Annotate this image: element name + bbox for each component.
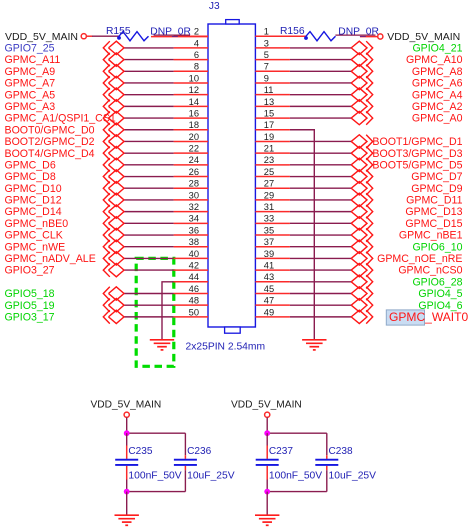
svg-text:2: 2: [194, 27, 199, 37]
svg-text:GPIO3_17: GPIO3_17: [5, 311, 55, 323]
svg-text:36: 36: [189, 225, 199, 235]
svg-text:GPMC_D12: GPMC_D12: [5, 195, 62, 207]
svg-text:R155: R155: [106, 26, 131, 37]
svg-text:7: 7: [264, 62, 269, 72]
svg-text:BOOT4/GPMC_D4: BOOT4/GPMC_D4: [5, 148, 95, 160]
svg-text:GPMC_A4: GPMC_A4: [412, 89, 463, 101]
svg-text:GPMC_A10: GPMC_A10: [406, 54, 463, 66]
svg-text:GPMC_A9: GPMC_A9: [5, 66, 56, 78]
svg-text:BOOT2/GPMC_D2: BOOT2/GPMC_D2: [5, 136, 95, 148]
svg-text:14: 14: [189, 97, 199, 107]
svg-text:37: 37: [264, 237, 274, 247]
svg-text:C238: C238: [329, 446, 354, 457]
svg-text:GPMC_D10: GPMC_D10: [5, 183, 62, 195]
svg-text:GPMC_D6: GPMC_D6: [5, 159, 56, 171]
svg-text:GPMC_nBE0: GPMC_nBE0: [5, 218, 69, 230]
svg-text:50: 50: [189, 307, 199, 317]
svg-text:DNP_0R: DNP_0R: [150, 27, 191, 38]
svg-text:DNP_0R: DNP_0R: [338, 27, 379, 38]
svg-text:GPMC_A7: GPMC_A7: [5, 78, 56, 90]
svg-text:27: 27: [264, 179, 274, 189]
svg-text:46: 46: [189, 284, 199, 294]
svg-text:24: 24: [189, 155, 199, 165]
svg-text:GPIO4_21: GPIO4_21: [412, 42, 462, 54]
svg-text:GPMC_A6: GPMC_A6: [412, 78, 463, 90]
svg-text:VDD_5V_MAIN: VDD_5V_MAIN: [231, 399, 302, 410]
svg-text:R156: R156: [280, 26, 305, 37]
svg-text:C237: C237: [269, 446, 294, 457]
svg-text:43: 43: [264, 272, 274, 282]
svg-text:GPMC_D7: GPMC_D7: [411, 171, 462, 183]
svg-text:VDD_5V_MAIN: VDD_5V_MAIN: [387, 31, 460, 43]
svg-text:17: 17: [264, 120, 274, 130]
svg-text:GPMC_D9: GPMC_D9: [411, 183, 462, 195]
svg-text:VDD_5V_MAIN: VDD_5V_MAIN: [91, 399, 162, 410]
svg-text:BOOT5/GPMC_D5: BOOT5/GPMC_D5: [372, 159, 462, 171]
svg-text:4: 4: [194, 38, 199, 48]
svg-text:GPMC_D13: GPMC_D13: [405, 206, 462, 218]
svg-text:3: 3: [264, 38, 269, 48]
svg-text:GPMC_A5: GPMC_A5: [5, 89, 56, 101]
svg-text:GPIO4_5: GPIO4_5: [418, 288, 462, 300]
svg-text:GPMC_CLK: GPMC_CLK: [5, 230, 63, 242]
svg-text:10uF_25V: 10uF_25V: [187, 470, 235, 481]
svg-text:VDD_5V_MAIN: VDD_5V_MAIN: [5, 31, 78, 43]
svg-text:2x25PIN 2.54mm: 2x25PIN 2.54mm: [186, 342, 266, 353]
svg-text:12: 12: [189, 85, 199, 95]
svg-text:GPMC_D8: GPMC_D8: [5, 171, 56, 183]
svg-text:41: 41: [264, 261, 274, 271]
svg-text:22: 22: [189, 144, 199, 154]
svg-text:GPIO5_19: GPIO5_19: [5, 300, 55, 312]
svg-text:34: 34: [189, 214, 199, 224]
svg-text:GPMC_A8: GPMC_A8: [412, 66, 463, 78]
svg-text:11: 11: [264, 85, 274, 95]
svg-text:8: 8: [194, 62, 199, 72]
svg-text:32: 32: [189, 202, 199, 212]
svg-text:18: 18: [189, 120, 199, 130]
svg-text:38: 38: [189, 237, 199, 247]
svg-text:13: 13: [264, 97, 274, 107]
svg-text:10: 10: [189, 73, 199, 83]
svg-text:26: 26: [189, 167, 199, 177]
svg-text:44: 44: [189, 272, 199, 282]
svg-text:16: 16: [189, 108, 199, 118]
svg-text:45: 45: [264, 284, 274, 294]
svg-text:20: 20: [189, 132, 199, 142]
svg-text:GPIO7_25: GPIO7_25: [5, 42, 55, 54]
svg-text:28: 28: [189, 179, 199, 189]
svg-text:GPMC_nWE: GPMC_nWE: [5, 241, 66, 253]
svg-text:GPIO3_27: GPIO3_27: [5, 265, 55, 277]
svg-text:29: 29: [264, 190, 274, 200]
svg-text:GPIO6_10: GPIO6_10: [412, 241, 462, 253]
svg-text:30: 30: [189, 190, 199, 200]
svg-text:GPMC_nADV_ALE: GPMC_nADV_ALE: [5, 253, 96, 265]
svg-text:GPMC_A0: GPMC_A0: [412, 113, 463, 125]
svg-text:C235: C235: [128, 446, 153, 457]
svg-text:21: 21: [264, 144, 274, 154]
svg-text:6: 6: [194, 50, 199, 60]
svg-text:1: 1: [264, 27, 269, 37]
svg-text:BOOT1/GPMC_D1: BOOT1/GPMC_D1: [372, 136, 462, 148]
svg-text:GPMC_A2: GPMC_A2: [412, 101, 463, 113]
svg-text:5: 5: [264, 50, 269, 60]
svg-text:GPMC_A3: GPMC_A3: [5, 101, 56, 113]
svg-text:BOOT0/GPMC_D0: BOOT0/GPMC_D0: [5, 124, 95, 136]
svg-text:GPMC_WAIT0: GPMC_WAIT0: [389, 310, 469, 324]
svg-text:100nF_50V: 100nF_50V: [269, 470, 322, 481]
svg-text:42: 42: [189, 261, 199, 271]
svg-text:10uF_25V: 10uF_25V: [329, 470, 377, 481]
svg-text:31: 31: [264, 202, 274, 212]
svg-text:15: 15: [264, 108, 274, 118]
svg-text:25: 25: [264, 167, 274, 177]
svg-text:19: 19: [264, 132, 274, 142]
svg-text:48: 48: [189, 296, 199, 306]
svg-text:J3: J3: [209, 1, 220, 12]
svg-text:GPMC_nOE_nRE: GPMC_nOE_nRE: [377, 253, 462, 265]
svg-text:GPMC_A1/QSPI1_CS1: GPMC_A1/QSPI1_CS1: [5, 113, 116, 125]
svg-text:9: 9: [264, 73, 269, 83]
svg-text:GPMC_A11: GPMC_A11: [5, 54, 61, 66]
svg-text:GPMC_nCS0: GPMC_nCS0: [398, 265, 462, 277]
svg-text:BOOT3/GPMC_D3: BOOT3/GPMC_D3: [372, 148, 462, 160]
svg-text:47: 47: [264, 296, 274, 306]
svg-text:40: 40: [189, 249, 199, 259]
svg-text:100nF_50V: 100nF_50V: [128, 470, 181, 481]
svg-text:49: 49: [264, 307, 274, 317]
svg-text:23: 23: [264, 155, 274, 165]
svg-text:GPMC_D14: GPMC_D14: [5, 206, 62, 218]
svg-text:39: 39: [264, 249, 274, 259]
svg-text:GPMC_D11: GPMC_D11: [406, 195, 462, 207]
svg-text:C236: C236: [187, 446, 212, 457]
svg-text:GPIO5_18: GPIO5_18: [5, 288, 55, 300]
svg-text:33: 33: [264, 214, 274, 224]
svg-text:GPIO6_28: GPIO6_28: [412, 276, 462, 288]
svg-text:35: 35: [264, 225, 274, 235]
svg-text:GPMC_D15: GPMC_D15: [405, 218, 462, 230]
svg-text:GPMC_nBE1: GPMC_nBE1: [399, 230, 463, 242]
